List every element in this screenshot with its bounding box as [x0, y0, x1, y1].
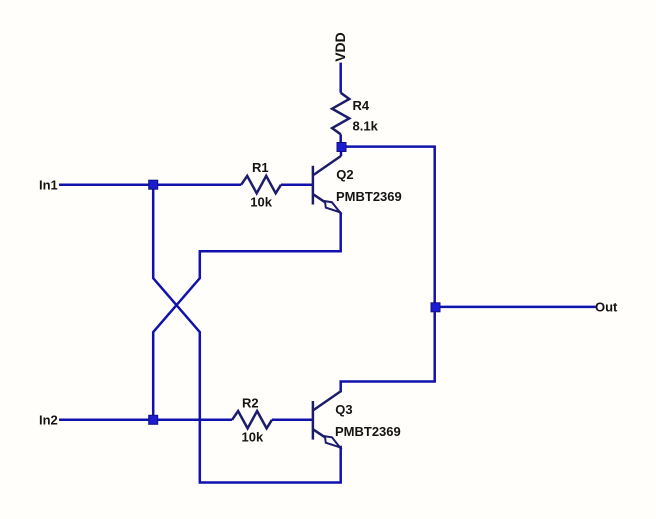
svg-text:R1: R1 [252, 160, 269, 175]
svg-text:Out: Out [595, 300, 618, 315]
svg-text:Q3: Q3 [335, 402, 352, 417]
svg-text:8.1k: 8.1k [353, 119, 379, 134]
svg-text:VDD: VDD [332, 32, 348, 62]
node junction In1 [149, 180, 158, 189]
wire In1 lead [59, 183, 241, 186]
svg-text:10k: 10k [250, 195, 272, 210]
wire In2 lead [59, 419, 232, 422]
node junction collector/R4 [337, 143, 346, 152]
wire In1 junction down to crossover [153, 185, 341, 483]
svg-text:PMBT2369: PMBT2369 [336, 189, 402, 204]
resistor R1 [241, 176, 281, 193]
resistor R4 [332, 93, 349, 135]
svg-text:10k: 10k [242, 430, 264, 445]
svg-text:R4: R4 [353, 98, 370, 113]
resistor R2 [232, 411, 272, 428]
wire R1 to Q2 base [281, 183, 312, 186]
wire Q2 collector stub [340, 147, 343, 156]
wire collector node to out node [341, 147, 435, 393]
wire VDD to R4 [339, 63, 342, 93]
wire R4 to collector node [339, 134, 342, 147]
wire R2 to Q3 base [272, 419, 312, 422]
svg-text:In2: In2 [39, 412, 58, 427]
svg-text:PMBT2369: PMBT2369 [335, 424, 401, 439]
node junction Out [431, 303, 440, 312]
wire Out lead [435, 306, 596, 309]
node junction In2 [149, 415, 158, 424]
transistor Q3 [313, 391, 341, 448]
svg-text:Q2: Q2 [336, 167, 353, 182]
wire Q2 emitter to In2 junction (crossover) [153, 212, 341, 419]
svg-text:In1: In1 [39, 177, 58, 192]
svg-text:R2: R2 [242, 395, 259, 410]
transistor Q2 [313, 156, 341, 213]
